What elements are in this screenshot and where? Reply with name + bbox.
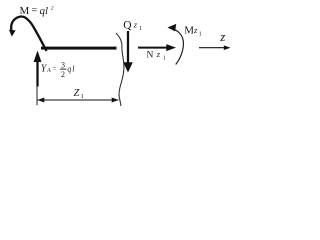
svg-text:q: q xyxy=(67,65,71,74)
svg-text:=: = xyxy=(32,6,38,17)
svg-text:1: 1 xyxy=(199,31,202,37)
svg-text:Q: Q xyxy=(123,20,132,32)
svg-text:1: 1 xyxy=(81,93,84,100)
axial force arrow N (rightward) xyxy=(138,44,176,51)
svg-text:l: l xyxy=(72,65,75,74)
svg-text:A: A xyxy=(46,67,51,74)
svg-text:z: z xyxy=(219,29,225,44)
svg-text:z: z xyxy=(156,49,161,59)
wavy cut line xyxy=(116,33,124,106)
reaction force arrow YA (upward) xyxy=(34,51,42,87)
svg-text:1: 1 xyxy=(163,55,166,61)
label Mz1 xyxy=(184,25,202,38)
label YA = 3/2 ql xyxy=(41,60,76,78)
svg-text:2: 2 xyxy=(51,5,54,11)
extension line below YA xyxy=(36,87,38,106)
svg-text:M: M xyxy=(184,25,194,37)
svg-text:z: z xyxy=(133,20,138,30)
svg-text:1: 1 xyxy=(139,26,142,32)
svg-text:z: z xyxy=(193,25,198,35)
shear force arrow Q (downward) xyxy=(123,31,133,73)
moment arrow M (curved hook with arrowhead) xyxy=(9,16,47,51)
svg-text:=: = xyxy=(53,65,57,73)
svg-text:3: 3 xyxy=(61,60,65,69)
label M = ql^2 xyxy=(20,5,54,17)
label Z1 xyxy=(74,88,84,100)
beam (horizontal bar) xyxy=(41,47,117,50)
label Q z1 xyxy=(123,20,142,32)
svg-text:2: 2 xyxy=(61,70,65,79)
svg-text:ql: ql xyxy=(40,5,49,17)
moment arrow Mz1 (arc with arrowhead) xyxy=(168,24,184,65)
svg-text:M: M xyxy=(20,5,30,17)
label N z1 xyxy=(147,49,166,61)
dimension line Z1 xyxy=(38,98,119,103)
svg-text:N: N xyxy=(147,51,154,61)
z axis arrow xyxy=(199,45,231,50)
svg-text:Z: Z xyxy=(74,88,80,99)
